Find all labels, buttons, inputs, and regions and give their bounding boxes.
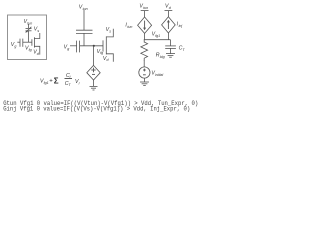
wire	[167, 33, 169, 40]
equation Vfg1 = sum Ci/CT Vi	[40, 73, 80, 87]
label CT	[179, 46, 186, 52]
capacitor Cg (middle)	[77, 41, 80, 53]
wire	[170, 40, 172, 46]
node Vtun (box)	[24, 19, 33, 25]
svg-text:big: big	[160, 55, 165, 59]
ground (E1)	[90, 86, 98, 90]
svg-text:fg1: fg1	[155, 34, 160, 38]
capacitor CT	[165, 46, 176, 49]
svg-text:initial: initial	[155, 73, 163, 77]
svg-text:Σ: Σ	[54, 77, 59, 86]
label Vs (box)	[34, 27, 40, 33]
wire	[27, 24, 29, 28]
svg-text:tun: tun	[83, 7, 88, 11]
wire (node bus)	[144, 39, 171, 41]
label Vd (middle)	[103, 56, 110, 62]
node Vg (middle)	[64, 44, 70, 50]
wire	[170, 48, 172, 53]
svg-text:g: g	[14, 45, 16, 49]
wire	[83, 33, 85, 45]
svg-text:inj: inj	[179, 24, 183, 28]
wire	[27, 31, 29, 42]
svg-text:s: s	[37, 29, 39, 33]
tunneling junction TJ (box)	[26, 27, 32, 33]
symbol box frame	[8, 15, 47, 60]
label Itun	[125, 22, 132, 28]
wire	[144, 33, 146, 39]
svg-text:tun: tun	[127, 25, 132, 29]
voltage source Vinitial	[139, 67, 150, 78]
pFET M1 (box)	[32, 33, 40, 55]
svg-text:d: d	[107, 58, 110, 62]
wire	[143, 61, 145, 68]
svg-text:+: +	[49, 79, 53, 85]
label Vd (box)	[33, 50, 40, 56]
label Vfg (middle)	[97, 49, 104, 55]
floating-gate wire (middle)	[80, 45, 103, 47]
svg-text:s: s	[109, 29, 111, 33]
svg-text:d: d	[169, 6, 172, 10]
pFET M2	[103, 29, 113, 62]
node Vfg1	[152, 31, 161, 37]
resistor Rbig	[141, 42, 148, 61]
node Vg (box)	[11, 42, 17, 48]
wire	[143, 78, 145, 82]
label Iinj	[177, 21, 183, 27]
svg-text:fg: fg	[29, 48, 32, 52]
fraction bar	[65, 78, 73, 80]
ground (CT)	[166, 54, 175, 58]
dependent current source Ginj	[162, 17, 176, 33]
ground (Vinitial)	[140, 82, 149, 86]
label Rbig	[156, 52, 165, 58]
wire	[93, 80, 95, 86]
svg-text:fg: fg	[100, 51, 103, 55]
node Vtun (middle)	[79, 4, 88, 10]
wire	[70, 45, 77, 47]
svg-text:T: T	[68, 83, 71, 87]
wire	[143, 40, 145, 43]
label Vs (middle)	[106, 27, 112, 33]
node Vtun rail	[139, 3, 148, 9]
floating-gate wire (box)	[23, 41, 32, 43]
junction node	[93, 45, 95, 47]
wire	[144, 11, 146, 17]
label Vinitial	[151, 71, 163, 77]
capacitor Ctun	[76, 30, 93, 33]
wire	[83, 10, 85, 31]
svg-text:tun: tun	[143, 6, 148, 10]
svg-text:g: g	[67, 47, 69, 51]
capacitor Cg (box)	[20, 39, 23, 47]
svg-text:d: d	[37, 52, 40, 56]
svg-text:T: T	[182, 48, 185, 52]
node Vd rail	[165, 3, 172, 9]
dependent current source Gtun	[138, 17, 152, 33]
dependent voltage source E1	[87, 65, 100, 80]
wire	[93, 46, 95, 66]
label Vfg (box)	[25, 46, 32, 52]
rail bar	[165, 10, 173, 12]
svg-text:i: i	[79, 81, 80, 85]
svg-text:Ginj Vfg1 0 value=IF((V(Vs)-V(: Ginj Vfg1 0 value=IF((V(Vs)-V(Vfg1)) > V…	[3, 106, 190, 113]
rail bar	[141, 10, 149, 12]
svg-text:fg1: fg1	[44, 81, 49, 85]
wire	[17, 41, 20, 43]
wire	[167, 11, 169, 17]
